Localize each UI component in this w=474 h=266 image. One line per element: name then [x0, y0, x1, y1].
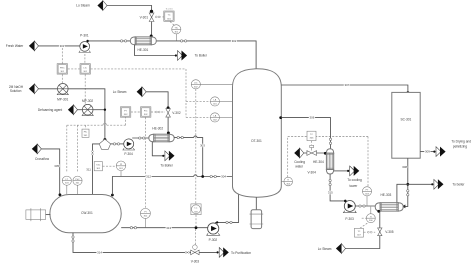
tank CW-301	[50, 195, 121, 233]
valve V-304	[307, 145, 317, 174]
svg-text:To Purification: To Purification	[231, 251, 251, 255]
svg-text:V-304: V-304	[308, 171, 317, 175]
signal FY-302 to FIC-302	[131, 111, 141, 113]
svg-text:CW-301: CW-301	[81, 211, 93, 215]
svg-text:V-303: V-303	[191, 259, 200, 263]
signal FRC-301 down to MP-301	[61, 74, 63, 83]
svg-text:pelletizing: pelletizing	[453, 144, 467, 148]
signal TdC-301 to PI-301	[103, 165, 116, 167]
label Lo Steam (middle)	[113, 90, 127, 94]
label To Purification	[231, 251, 251, 255]
svg-text:304: 304	[221, 175, 226, 179]
pipe 307 column top to SC-301	[281, 83, 409, 94]
svg-text:HE-304: HE-304	[313, 160, 324, 164]
pipe 306 column side to HE-304	[279, 116, 331, 149]
signal TC-306 to valve V-304	[310, 141, 312, 145]
label To Drying and pelletizing	[451, 140, 471, 149]
svg-text:305: 305	[54, 164, 59, 168]
svg-text:TIC: TIC	[175, 28, 179, 30]
svg-text:308: 308	[402, 165, 407, 169]
column DT-301	[233, 69, 282, 197]
label Fresh Water	[6, 44, 24, 48]
svg-text:PhC: PhC	[75, 179, 80, 181]
instrument LA-301	[210, 97, 232, 106]
arrow inlet NaOH	[29, 84, 39, 94]
svg-text:To Drying and: To Drying and	[451, 140, 471, 144]
pump P-302	[207, 223, 220, 242]
svg-text:To boiler: To boiler	[452, 183, 465, 187]
svg-text:Defoaming agent: Defoaming agent	[38, 108, 62, 112]
svg-text:FRC: FRC	[60, 67, 65, 69]
pipe mixer to pump P-304	[111, 143, 124, 145]
pipe 312 tank to column feed	[111, 175, 233, 197]
signal TC-307 to valve V-305	[364, 231, 376, 233]
svg-text:SC-301: SC-301	[400, 117, 411, 121]
pipe Lo Steam to valve V-301 and HE-301	[107, 6, 152, 37]
svg-text:TC: TC	[168, 15, 171, 17]
signal trunk dashed horizontal y125	[67, 117, 126, 171]
valve V-301	[140, 10, 154, 22]
pump MP-301	[57, 84, 68, 102]
svg-text:PI: PI	[144, 212, 146, 214]
mixer M-301	[99, 139, 110, 149]
svg-text:303: 303	[200, 143, 205, 147]
svg-text:HE-303: HE-303	[380, 193, 391, 197]
coupling pair before HE-301	[120, 40, 126, 42]
svg-text:HE-301: HE-301	[137, 48, 148, 52]
pipe MP-301 discharge to mixer	[68, 89, 105, 139]
pipe 314 tank bottom to purification	[72, 233, 217, 255]
arrow outlet To Boiler (HE-302)	[162, 151, 174, 161]
svg-text:Lo Steam: Lo Steam	[76, 4, 90, 8]
controller box TC-307	[354, 228, 363, 237]
svg-text:309: 309	[425, 150, 430, 154]
pump P-303	[343, 201, 356, 222]
label Defoaming agent	[38, 108, 62, 112]
controller box FIC-302	[141, 107, 151, 117]
bottom heater canister	[250, 197, 264, 228]
signal LIC-301 down to MP-302	[84, 74, 86, 103]
valve V-305	[378, 228, 394, 236]
instrument LT-303	[62, 176, 71, 194]
pipe 309 SC-301 to drying	[420, 150, 433, 154]
arrow inlet Crossflow	[32, 144, 42, 154]
label Cooling water	[294, 160, 305, 169]
arrow inlet Cooling water	[294, 148, 304, 158]
svg-text:313: 313	[166, 226, 171, 230]
coupling pair after HE-301	[180, 40, 186, 42]
svg-text:LC: LC	[195, 208, 198, 210]
svg-text:P-301: P-301	[80, 34, 89, 38]
svg-text:FfC: FfC	[84, 132, 88, 134]
controller box LIC-301	[80, 64, 90, 74]
svg-text:TC: TC	[310, 134, 313, 136]
instrument PI-302	[140, 208, 150, 227]
svg-text:314: 314	[97, 251, 102, 255]
instrument FT-303	[362, 187, 371, 206]
pipe Lo Steam to valve V-302 and HE-302	[146, 92, 168, 133]
svg-text:302: 302	[232, 39, 237, 43]
signal TI-306 to TC-307	[360, 218, 367, 228]
pump P-301	[79, 34, 90, 53]
label To boiler	[452, 183, 465, 187]
instrument PI-301	[116, 161, 126, 176]
signal FRC-301 to LIC-301	[68, 68, 80, 70]
instrument TI-304	[281, 177, 292, 186]
pipe HE-302 condensate to boiler	[152, 142, 162, 156]
arrow inlet Lo Steam middle	[137, 87, 147, 97]
signal P-301 down to LIC-301	[84, 54, 86, 63]
label To cooling tower	[347, 178, 362, 188]
signal LIC-301 to column instruments	[91, 68, 186, 70]
signal FIC-302 to valve V-302	[151, 111, 165, 113]
instrument PhC-301	[73, 176, 82, 194]
svg-text:LIC: LIC	[194, 83, 198, 85]
svg-text:P-303: P-303	[345, 217, 354, 221]
pipe P-303 discharge to HE-303	[355, 205, 375, 207]
node mixer top	[103, 138, 106, 141]
instrument LIC-305 (square+circle)	[191, 204, 201, 215]
label To Boiler	[195, 54, 208, 58]
signal FIC-302 down to PI-302	[145, 117, 147, 208]
instrument LIC-302	[191, 80, 232, 89]
svg-text:Crossflow: Crossflow	[35, 157, 50, 161]
valve V-303	[191, 245, 200, 264]
svg-text:Solution: Solution	[10, 89, 22, 93]
pipe MP-302 discharge joining MP-301 line	[93, 109, 106, 111]
label To Boiler (HE-302)	[160, 163, 173, 167]
signal trunk x186 with LA branches	[186, 69, 210, 117]
arrow outlet To Boiler (HE-301)	[175, 51, 187, 61]
svg-text:DT-301: DT-301	[251, 139, 262, 143]
svg-text:P-302: P-302	[209, 238, 218, 242]
heat exchanger HE-303	[375, 193, 403, 211]
arrow inlet Lo Steam bottom	[336, 244, 346, 254]
pipe HE-301 condensate to boiler	[135, 45, 176, 56]
arrow inlet defoaming agent	[68, 105, 78, 115]
svg-text:HE-302: HE-302	[152, 127, 163, 131]
svg-text:312: 312	[146, 175, 151, 179]
pump P-304	[123, 139, 135, 156]
controller box FY-302	[120, 107, 130, 117]
heat exchanger HE-301	[130, 37, 156, 52]
node HE-304 cw inlet	[324, 152, 327, 155]
pump MP-302	[82, 99, 93, 115]
signal TY-301 to TI-301	[170, 22, 175, 26]
svg-text:307: 307	[344, 83, 349, 87]
controller box FC-301 (small)	[82, 129, 89, 137]
node steam inlet HE-302	[167, 132, 170, 135]
svg-text:water: water	[295, 165, 304, 169]
pipe defoamer to pump MP-302	[77, 109, 82, 111]
heat exchanger HE-304 (vertical)	[313, 149, 334, 174]
svg-text:MP-301: MP-301	[57, 98, 68, 102]
heat exchanger HE-302	[149, 127, 174, 142]
arrow outlet To Purification	[217, 247, 229, 257]
pipe Lo Steam to valve V-305 and HE-303	[345, 211, 380, 248]
svg-text:MP-302: MP-302	[82, 99, 93, 103]
svg-text:TdC: TdC	[96, 165, 101, 167]
svg-text:TC: TC	[357, 231, 360, 233]
controller box TY-301	[164, 9, 174, 22]
pipe 303 HE-302 outlet down to feed junction	[174, 136, 205, 177]
signal LIC-305 down to valve V-303	[194, 215, 197, 245]
svg-text:Lo Steam: Lo Steam	[113, 90, 127, 94]
agitator motor	[26, 208, 51, 221]
arrow inlet Fresh Water	[29, 41, 39, 51]
pipe P-302 discharge to column bottom	[215, 193, 239, 223]
svg-text:315: 315	[328, 191, 333, 195]
controller box TC-306	[307, 131, 316, 140]
svg-text:tower: tower	[350, 184, 359, 188]
svg-text:Lo Steam: Lo Steam	[318, 247, 332, 251]
svg-text:To Boiler: To Boiler	[195, 54, 208, 58]
signal FRC-301 up to fresh water line	[61, 48, 63, 63]
svg-text:V-305: V-305	[385, 230, 394, 234]
label 2M NaOH Solution	[9, 85, 24, 93]
svg-text:LIC: LIC	[83, 67, 87, 69]
pipe 311 mixer to tank CW-301	[86, 144, 99, 194]
signal LIC-302 down to LIC-305	[195, 89, 197, 204]
signal loop TI-304 to TC boxes	[288, 137, 368, 187]
instrument LA-302	[210, 113, 232, 122]
svg-text:P-304: P-304	[124, 152, 133, 156]
pipe HE-304 to cooling tower	[334, 170, 348, 172]
pipe HE-303 shell out to boiler	[397, 184, 432, 203]
pipe 308 SC-301 bottoms	[402, 158, 409, 208]
pipe 313 tank to pump P-302	[121, 226, 207, 230]
instrument TI-301	[172, 25, 181, 41]
arrow outlet To cooling tower	[347, 166, 359, 176]
label Crossflow	[35, 157, 50, 161]
svg-text:301: 301	[60, 44, 65, 48]
pipe P-301 discharge to HE-301 and column feed 302	[86, 40, 256, 69]
label Lo Steam (bottom)	[318, 247, 332, 251]
vessel SC-301	[392, 92, 420, 158]
node steam inlet HE-301	[150, 35, 153, 38]
valve V-302	[166, 106, 181, 117]
arrow outlet To boiler (right)	[431, 179, 443, 189]
pipe NaOH to pump MP-301	[38, 88, 57, 90]
signal valve V-301 to controller TY-301	[155, 16, 163, 18]
pipe cooling water to HE-304	[304, 152, 326, 154]
svg-text:V-301: V-301	[140, 15, 149, 19]
svg-text:TLC301: TLC301	[165, 9, 173, 11]
arrow outlet To Drying	[433, 147, 445, 157]
svg-text:311: 311	[86, 168, 91, 172]
svg-text:V-302: V-302	[172, 111, 181, 115]
pipe 315 HE-304 bottom to pump P-303	[328, 174, 347, 202]
svg-text:Cooling: Cooling	[294, 160, 305, 164]
controller box FRC-301	[57, 64, 67, 74]
arrow inlet Lo Steam top	[97, 1, 107, 11]
controller box TdC-301	[94, 162, 102, 171]
label stream 302	[232, 39, 237, 43]
svg-text:306: 306	[309, 116, 314, 120]
svg-text:FIC: FIC	[144, 110, 148, 112]
svg-text:To Boiler: To Boiler	[160, 163, 173, 167]
pipe 305 crossflow into tank	[41, 149, 61, 196]
svg-text:Fresh Water: Fresh Water	[6, 44, 24, 48]
instrument TI-306	[366, 207, 375, 223]
pipe P-304 discharge to HE-302	[132, 137, 149, 139]
node HE-303 steam inlet	[377, 210, 380, 213]
pipe fresh water to pump P-301	[38, 44, 80, 48]
coupling mixer outlet	[113, 143, 119, 145]
label Lo Steam (top)	[76, 4, 90, 8]
svg-text:To cooling: To cooling	[347, 178, 362, 182]
